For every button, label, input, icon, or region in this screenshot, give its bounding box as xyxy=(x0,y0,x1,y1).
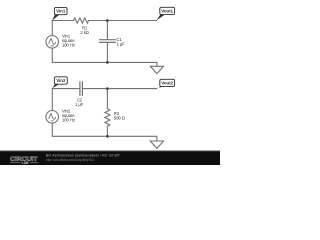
svg-text:Vout1: Vout1 xyxy=(161,9,173,14)
svg-text:Vin1: Vin1 xyxy=(56,9,66,14)
svg-text:LAB: LAB xyxy=(22,161,30,165)
svg-text:100 Hz: 100 Hz xyxy=(62,43,75,48)
svg-text:Bill Ashmanskas (ashmanskas) /: Bill Ashmanskas (ashmanskas) / RC int di… xyxy=(46,154,120,158)
svg-text:1 µF: 1 µF xyxy=(75,102,84,107)
svg-text:500 Ω: 500 Ω xyxy=(114,115,125,120)
svg-text:http://circuitlab.com/c2vq48wp: http://circuitlab.com/c2vq48wp7k3 xyxy=(46,158,94,162)
svg-text:Vout2: Vout2 xyxy=(161,81,173,86)
svg-text:1 µF: 1 µF xyxy=(117,42,126,47)
svg-text:100 Hz: 100 Hz xyxy=(62,117,75,122)
svg-text:Vin2: Vin2 xyxy=(56,78,66,83)
svg-text:2 kΩ: 2 kΩ xyxy=(80,30,89,35)
